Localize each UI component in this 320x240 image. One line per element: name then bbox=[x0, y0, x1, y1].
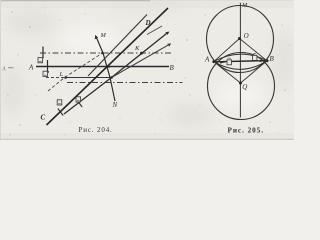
line H3 (short line through L) bbox=[46, 77, 66, 79]
dashed diagonal through L bbox=[48, 53, 103, 91]
stray margin label A with dash bbox=[1, 66, 14, 72]
node K bbox=[140, 52, 143, 55]
line C (long thick diagonal C to upper right) bbox=[47, 8, 169, 125]
label a (first) bbox=[57, 100, 62, 105]
line H4 (dash-dot parallel below AB) bbox=[67, 82, 183, 84]
node J3 bbox=[110, 76, 113, 79]
segment OB bbox=[240, 39, 268, 61]
tick V1 (distance mark crossing H1) bbox=[42, 47, 44, 59]
lens lower arc bbox=[214, 61, 267, 70]
line MN (steep transversal) bbox=[96, 37, 115, 101]
arrowhead R1 bbox=[165, 32, 169, 35]
label a (between H1 and H2) bbox=[38, 58, 43, 63]
chord AB bbox=[214, 61, 267, 62]
angle wedge at A bbox=[220, 61, 226, 64]
paper background bbox=[0, 0, 294, 140]
angle wedge at B bbox=[257, 60, 262, 62]
line T1 (thin diagonal through J1) bbox=[88, 15, 147, 77]
segment OA bbox=[214, 39, 240, 62]
segment QB bbox=[241, 61, 268, 83]
node A bbox=[212, 60, 215, 63]
label a (between H2 and H3) bbox=[43, 71, 48, 76]
node L bbox=[64, 76, 67, 79]
top edge shadow line bbox=[0, 0, 150, 2]
line through L-prime, J3 and K with arrow bbox=[64, 33, 168, 114]
label alpha (right) bbox=[253, 54, 257, 61]
circle O (top) bbox=[207, 6, 274, 73]
scan specks bbox=[8, 11, 286, 125]
arrowhead R2 bbox=[167, 43, 171, 46]
vertical axis line bbox=[239, 3, 241, 118]
tick V2 (distance mark crossing H2, arrow down) bbox=[47, 60, 49, 73]
node J1 bbox=[101, 52, 103, 54]
label alpha (left) bbox=[227, 58, 231, 65]
tick X2 bbox=[77, 100, 82, 107]
scan grain overlay bbox=[0, 0, 294, 140]
bottom edge smudge bbox=[0, 138, 294, 140]
left edge shadow line bbox=[0, 0, 2, 140]
circle Q (bottom) bbox=[208, 53, 275, 120]
label a (second) bbox=[76, 97, 81, 102]
segment QA bbox=[214, 62, 241, 83]
ray R2 (lower ray with arrow) bbox=[112, 45, 170, 78]
tick X1 bbox=[58, 109, 63, 116]
node Q bbox=[239, 82, 242, 85]
node J2 bbox=[107, 65, 110, 68]
line H1 (dash-dot parallel above AB) bbox=[40, 52, 172, 54]
line AB (H2 solid) bbox=[36, 66, 169, 68]
lens upper arc bbox=[214, 54, 267, 62]
arrowhead at M bbox=[95, 35, 98, 40]
node O bbox=[238, 37, 241, 40]
short stroke above K bbox=[147, 26, 162, 35]
node B bbox=[266, 59, 269, 62]
